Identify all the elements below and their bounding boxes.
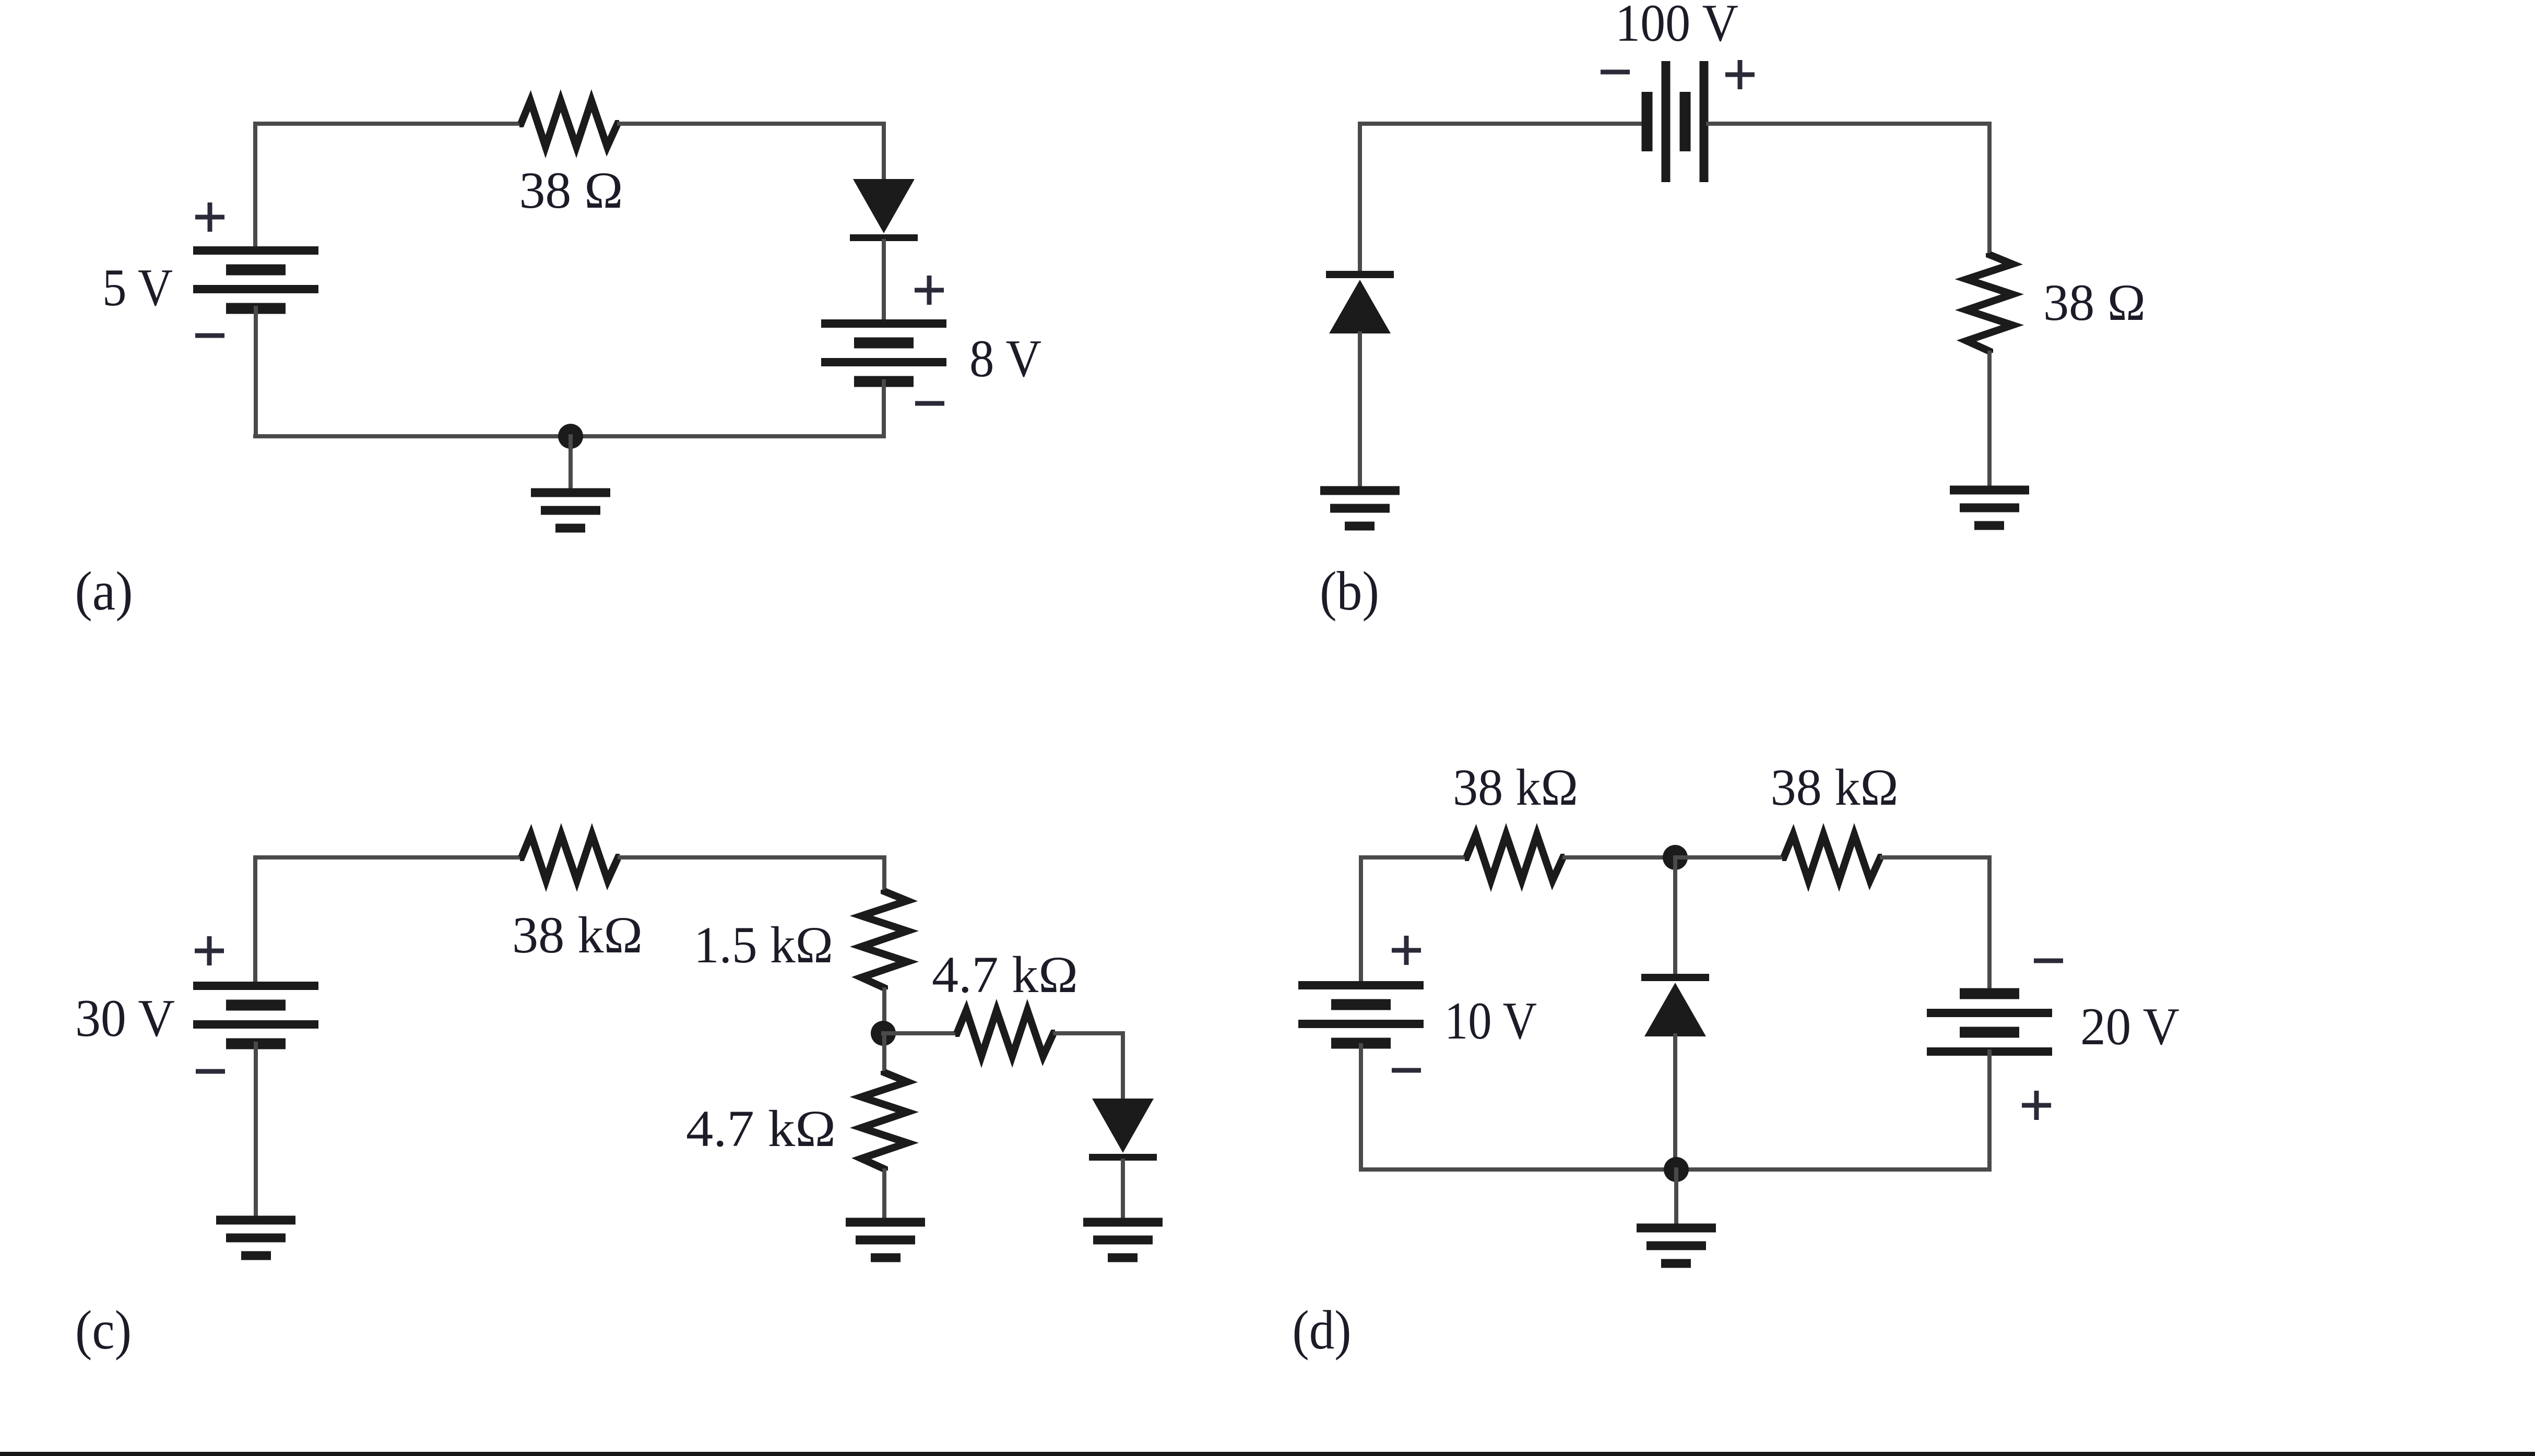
wire: d right vertical bbox=[1987, 857, 1992, 995]
minus sign V1 (a) bbox=[195, 333, 224, 338]
svg-text:8 V: 8 V bbox=[969, 329, 1041, 388]
wire: d top-middle-right segment bbox=[1675, 855, 1782, 860]
diode D2 (b) bbox=[1326, 271, 1394, 278]
svg-text:38 Ω: 38 Ω bbox=[519, 161, 623, 219]
wire: a diode to battery V2 bbox=[882, 241, 886, 325]
battery V3 100 V (b) bbox=[1642, 92, 1653, 151]
wire: d diode to bottom bbox=[1673, 1035, 1677, 1169]
wire: d ground stem bbox=[1674, 1169, 1678, 1230]
battery V5 10 V (d) bbox=[1298, 981, 1424, 989]
svg-text:4.7 kΩ: 4.7 kΩ bbox=[932, 946, 1078, 1004]
wire: a battery V2 to bottom bbox=[882, 381, 886, 436]
svg-text:5 V: 5 V bbox=[102, 258, 173, 317]
ground (b) right bbox=[1950, 486, 2029, 495]
ground (d) bbox=[1637, 1224, 1716, 1233]
wire: c top-left segment bbox=[255, 855, 520, 860]
node: c junction bbox=[871, 1021, 896, 1046]
plus sign V6 (d) bbox=[2022, 1091, 2051, 1120]
wire: a bottom bbox=[255, 434, 884, 438]
svg-text:(c): (c) bbox=[75, 1299, 132, 1360]
wire: c node to R5 bbox=[882, 1033, 886, 1072]
wire: c R4 to node bbox=[882, 989, 886, 1033]
svg-text:38 kΩ: 38 kΩ bbox=[1453, 758, 1578, 816]
ground (c) right bbox=[1083, 1218, 1163, 1227]
wire: d top-right segment bbox=[1882, 855, 1989, 860]
svg-text:1.5 kΩ: 1.5 kΩ bbox=[694, 916, 833, 974]
wire: c right corner to R4 bbox=[882, 857, 886, 891]
resistor R4 1.5 kohm (c) bbox=[861, 890, 907, 989]
resistor R3 38 kohm (c) bbox=[520, 834, 620, 880]
svg-text:30 V: 30 V bbox=[75, 989, 175, 1048]
minus sign V3 (b) bbox=[1601, 70, 1630, 75]
svg-text:(a): (a) bbox=[75, 560, 133, 622]
battery V4 30 V (c) bbox=[193, 982, 318, 990]
node: a ground junction bbox=[558, 424, 583, 449]
resistor R2 38 ohm (b) bbox=[1967, 253, 2012, 353]
wire: c node to R6 bbox=[883, 1031, 955, 1035]
wire: b left vertical bbox=[1358, 124, 1362, 271]
resistor R5 4.7 kohm vertical (c) bbox=[861, 1071, 907, 1171]
resistor R1 38 ohm (a) bbox=[519, 101, 619, 147]
wire: a top-right segment bbox=[619, 122, 884, 126]
svg-text:4.7 kΩ: 4.7 kΩ bbox=[686, 1100, 836, 1157]
svg-text:(b): (b) bbox=[1320, 560, 1379, 622]
wire: d top-middle segment bbox=[1565, 855, 1675, 860]
diode D4 (d) bbox=[1641, 974, 1709, 981]
ground (c) middle bbox=[846, 1218, 925, 1227]
node: d bottom junction bbox=[1664, 1157, 1689, 1182]
wire: c R5 to ground bbox=[882, 1171, 886, 1224]
wire: c battery to ground bbox=[254, 1044, 258, 1222]
diode D1 (a) bbox=[853, 179, 915, 233]
svg-text:10 V: 10 V bbox=[1444, 992, 1537, 1051]
wire: c top-right segment bbox=[620, 855, 884, 860]
wire: a ground stem bbox=[568, 436, 573, 495]
wire: d battery V6 to bottom bbox=[1987, 1052, 1992, 1169]
wire: b resistor to ground bbox=[1987, 353, 1992, 492]
wire: c diode to ground bbox=[1121, 1161, 1125, 1224]
wire: c R6 to right branch bbox=[1055, 1031, 1123, 1035]
diode D3 (c) bbox=[1092, 1099, 1154, 1153]
wire: a battery negative to bottom bbox=[254, 308, 258, 436]
wire: b top-left segment bbox=[1360, 122, 1644, 126]
wire: b top-right segment bbox=[1708, 122, 1989, 126]
resistor R7 38 kohm left (d) bbox=[1465, 834, 1565, 880]
ground (c) left bbox=[216, 1216, 295, 1225]
svg-text:20 V: 20 V bbox=[2080, 997, 2179, 1056]
svg-text:(d): (d) bbox=[1293, 1299, 1352, 1360]
battery V1 5 V (a) bbox=[193, 246, 318, 255]
wire: d node to diode bbox=[1673, 857, 1677, 975]
minus sign V5 (d) bbox=[1392, 1068, 1421, 1073]
wire: c left vertical bbox=[253, 857, 257, 987]
wire: a left vertical bbox=[253, 124, 257, 252]
wire: d bottom bbox=[1361, 1167, 1989, 1172]
minus sign V6 (d) bbox=[2034, 959, 2063, 963]
resistor R6 4.7 kohm horizontal (c) bbox=[955, 1010, 1055, 1056]
svg-text:100 V: 100 V bbox=[1615, 0, 1738, 53]
minus sign V4 (c) bbox=[196, 1069, 225, 1074]
node: d top junction bbox=[1663, 845, 1688, 870]
ground (a) bbox=[531, 488, 610, 497]
plus sign V2 (a) bbox=[915, 276, 944, 305]
wire: b right vertical bbox=[1987, 124, 1992, 254]
svg-text:38 kΩ: 38 kΩ bbox=[512, 906, 643, 964]
plus sign V1 (a) bbox=[195, 202, 224, 232]
wire: d top-left segment bbox=[1361, 855, 1465, 860]
ground (b) left bbox=[1320, 486, 1400, 495]
page bottom rule bbox=[0, 1452, 2535, 1456]
plus sign V4 (c) bbox=[195, 936, 224, 965]
wire: d left vertical bbox=[1359, 857, 1363, 986]
wire: a right vertical to diode bbox=[882, 124, 886, 180]
battery V6 20 V (d) bbox=[1960, 988, 2019, 999]
wire: d battery V5 to bottom bbox=[1359, 1045, 1363, 1169]
minus sign V2 (a) bbox=[915, 401, 944, 406]
battery V2 8 V (a) bbox=[821, 319, 946, 328]
svg-text:38 kΩ: 38 kΩ bbox=[1771, 758, 1899, 816]
resistor R8 38 kohm right (d) bbox=[1782, 834, 1882, 880]
plus sign V5 (d) bbox=[1392, 936, 1421, 965]
wire: b diode to ground bbox=[1358, 333, 1362, 493]
svg-text:38 Ω: 38 Ω bbox=[2043, 273, 2146, 331]
plus sign V3 (b) bbox=[1725, 60, 1755, 89]
wire: c right branch vertical bbox=[1121, 1033, 1125, 1100]
wire: a top-left segment bbox=[255, 122, 519, 126]
